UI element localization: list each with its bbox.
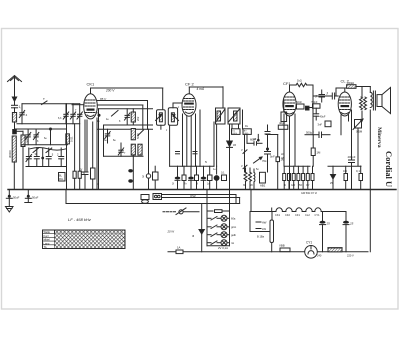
svg-text:Lang: Lang bbox=[44, 241, 50, 245]
svg-text:V: V bbox=[241, 149, 243, 152]
filter label box A bbox=[232, 129, 241, 135]
svg-text:500µF: 500µF bbox=[306, 131, 314, 135]
wire x214 bbox=[213, 122, 215, 166]
svg-text:gelb: gelb bbox=[231, 233, 236, 237]
tube CF2 pin wires bbox=[183, 110, 201, 166]
resistor 1M vertical bbox=[311, 135, 321, 167]
svg-text:J: J bbox=[178, 106, 180, 109]
wire rail x142.8 bbox=[142, 105, 144, 129]
svg-text:7: 7 bbox=[75, 109, 77, 112]
switch S2 bbox=[33, 148, 39, 153]
component row under CF2 bbox=[175, 166, 212, 189]
fuse 1A bbox=[176, 246, 183, 254]
wire section B bottom bbox=[22, 144, 68, 146]
svg-text:20 W: 20 W bbox=[167, 230, 175, 234]
svg-text:3nF: 3nF bbox=[318, 123, 323, 127]
switch contact bbox=[243, 150, 247, 154]
lamp 1 bbox=[207, 215, 236, 221]
svg-text:CY1: CY1 bbox=[306, 241, 312, 245]
wire CF2 anode bbox=[189, 87, 223, 108]
switch S1 bbox=[42, 97, 48, 105]
box 50nF bbox=[312, 100, 326, 120]
oscillator section top row bbox=[96, 109, 153, 190]
svg-text:2: 2 bbox=[57, 153, 59, 157]
resistor box vertical bbox=[281, 100, 287, 122]
svg-text:3K: 3K bbox=[243, 184, 246, 187]
wire x244.5 bbox=[244, 135, 246, 172]
resistor zigzag vertical bbox=[360, 87, 367, 119]
capacitor heater1 bbox=[320, 212, 331, 252]
transformer box bbox=[260, 172, 266, 187]
svg-text:1e: 1e bbox=[213, 168, 216, 171]
resistor row right bbox=[283, 166, 314, 189]
switch circle bbox=[142, 156, 151, 189]
capacitor 60pF bbox=[247, 138, 262, 146]
svg-text:0,5M: 0,5M bbox=[356, 130, 363, 134]
IF transformer 1 can A bbox=[156, 110, 166, 126]
svg-text:GW: GW bbox=[291, 184, 296, 187]
svg-text:PAL: PAL bbox=[59, 178, 64, 181]
wire tube1 pin bbox=[86, 120, 88, 171]
electrolytic 50uF B bbox=[25, 190, 39, 203]
coil L2 bbox=[8, 136, 16, 162]
capacitor 500pF bbox=[305, 131, 330, 138]
svg-text:LP: LP bbox=[281, 153, 284, 156]
wire right rail bbox=[66, 104, 68, 190]
svg-text:5o: 5o bbox=[256, 168, 259, 171]
coil loops bbox=[253, 169, 256, 190]
diode D1 bbox=[227, 124, 233, 190]
capacitor 5nF bbox=[265, 125, 276, 159]
svg-text:1B: 1B bbox=[233, 144, 236, 147]
resistor zigzag bbox=[244, 168, 247, 190]
svg-text:DL: DL bbox=[245, 125, 249, 128]
IF transformer 2 can B bbox=[228, 108, 240, 124]
tube CL2 pins bbox=[341, 110, 352, 135]
trimmer capacitor bbox=[70, 104, 75, 124]
wire osc row2 top bbox=[97, 128, 153, 130]
osc switch bbox=[138, 130, 144, 135]
wire bbox=[21, 104, 23, 112]
lamp 2 bbox=[207, 224, 237, 230]
svg-text:50uF: 50uF bbox=[13, 196, 20, 200]
svg-text:4e: 4e bbox=[106, 118, 109, 121]
grid cap J3 bbox=[313, 92, 338, 104]
svg-text:1M: 1M bbox=[317, 151, 322, 155]
wire anode line 200V bbox=[91, 88, 163, 110]
svg-text:CF1: CF1 bbox=[295, 213, 300, 217]
capacitor bbox=[77, 112, 82, 119]
osc coil L6 bbox=[131, 109, 140, 125]
svg-text:Minerva: Minerva bbox=[376, 127, 382, 148]
coil L1 bbox=[12, 108, 16, 122]
svg-text:V: V bbox=[241, 165, 243, 168]
speaker bbox=[377, 88, 391, 114]
thermistor BAB bbox=[141, 195, 149, 204]
svg-text:1e: 1e bbox=[97, 120, 100, 123]
filter label box B bbox=[243, 129, 251, 135]
svg-text:rot: rot bbox=[231, 241, 234, 245]
filament feed wires bbox=[162, 194, 240, 204]
svg-text:4B: 4B bbox=[253, 138, 256, 141]
wire rail x74.6 bbox=[74, 124, 76, 171]
svg-text:OSZ: OSZ bbox=[190, 194, 196, 198]
capacitor bars on pin bbox=[176, 152, 198, 154]
svg-text:30000: 30000 bbox=[8, 150, 12, 158]
svg-text:3l: 3l bbox=[142, 175, 144, 179]
electrolytic 25uF bbox=[331, 166, 336, 189]
electrolytic can bbox=[214, 166, 220, 189]
wire osc row3 bottom bbox=[104, 155, 144, 157]
box 50nF second bbox=[296, 100, 313, 110]
svg-text:3l: 3l bbox=[172, 183, 174, 186]
speaker transformer bbox=[362, 87, 375, 111]
svg-text:200 V: 200 V bbox=[105, 89, 115, 93]
svg-text:Mittel: Mittel bbox=[44, 238, 51, 242]
wire bbox=[267, 158, 269, 172]
svg-text:50nF: 50nF bbox=[312, 100, 318, 104]
rectifier CY1 bbox=[305, 241, 318, 259]
svg-text:6e: 6e bbox=[44, 137, 47, 140]
svg-text:1kΩ: 1kΩ bbox=[297, 79, 302, 83]
coil L5 bbox=[66, 134, 74, 144]
lamp 4 bbox=[207, 240, 234, 246]
heater chain bbox=[251, 208, 346, 217]
osc coil L8 bbox=[131, 129, 140, 140]
svg-text:LF - 468 kHz: LF - 468 kHz bbox=[68, 217, 91, 222]
resistor box 0,1 bbox=[221, 171, 227, 181]
osc row2 trimmer bbox=[105, 129, 110, 143]
svg-text:1,: 1, bbox=[19, 105, 22, 109]
resistor box bbox=[153, 166, 159, 189]
svg-text:5O: 5O bbox=[299, 184, 302, 187]
band switch box bbox=[250, 208, 274, 252]
svg-text:CF2: CF2 bbox=[285, 213, 290, 217]
svg-text:TA: TA bbox=[44, 245, 47, 249]
svg-text:LW: LW bbox=[262, 227, 266, 231]
volume pot right bbox=[353, 119, 363, 166]
main bus bbox=[8, 189, 396, 191]
svg-text:60a: 60a bbox=[231, 217, 236, 221]
wire CL2 anode bbox=[336, 87, 362, 97]
valve table bbox=[43, 230, 126, 249]
wire tube1 pin2 bbox=[96, 118, 98, 190]
svg-text:7: 7 bbox=[124, 152, 126, 155]
svg-text:VBB: VBB bbox=[279, 244, 285, 248]
wire grid left bbox=[72, 104, 84, 106]
svg-text:CK1: CK1 bbox=[87, 82, 96, 87]
svg-text:6e: 6e bbox=[104, 139, 107, 142]
resistor box 40pF bbox=[278, 121, 288, 129]
wire osc rail2 bbox=[103, 125, 105, 156]
svg-text:400pF: 400pF bbox=[348, 155, 356, 159]
tube CK1 bbox=[84, 82, 98, 119]
wire bbox=[13, 162, 15, 190]
wire bbox=[14, 122, 16, 130]
sub bus bbox=[66, 190, 240, 204]
mains line bbox=[168, 251, 368, 253]
wire mid row bbox=[15, 128, 67, 130]
wire wavy switch row bbox=[30, 148, 66, 151]
wire CF1 anode zigzag 1k bbox=[290, 79, 314, 135]
volume potentiometer bbox=[254, 157, 268, 163]
svg-text:4l: 4l bbox=[284, 184, 286, 187]
svg-text:8: 8 bbox=[119, 120, 121, 123]
wire bbox=[50, 129, 52, 145]
svg-text:grün: grün bbox=[231, 225, 237, 229]
osc trimmer row3 bbox=[118, 143, 123, 156]
resistor mains bbox=[328, 248, 342, 252]
node switch contact bbox=[13, 130, 23, 134]
wire tie bbox=[328, 165, 361, 167]
tiny value labels bbox=[37, 106, 348, 195]
pot small bbox=[148, 129, 150, 156]
svg-text:LRG: LRG bbox=[232, 133, 237, 135]
svg-text:AW: AW bbox=[262, 221, 267, 225]
svg-text:25: 25 bbox=[349, 222, 354, 226]
resistor zigzag2 bbox=[249, 168, 252, 190]
IF transformer 2 can A bbox=[216, 108, 226, 124]
tube CF2 bbox=[182, 82, 196, 117]
wire screen line bbox=[97, 97, 147, 129]
svg-text:220 V: 220 V bbox=[347, 254, 354, 258]
capacitor C-ant bbox=[12, 105, 22, 109]
osc coil L9 bbox=[131, 144, 135, 155]
voltage labels bbox=[317, 254, 354, 258]
component VBB bbox=[279, 244, 290, 252]
wire rail with electrolytic bbox=[167, 204, 205, 252]
svg-text:100: 100 bbox=[343, 170, 348, 173]
trimmer capacitor bbox=[19, 111, 27, 124]
coil L3 bbox=[21, 131, 30, 189]
svg-text:6,3: 6,3 bbox=[58, 117, 62, 120]
svg-text:5nF: 5nF bbox=[270, 155, 275, 159]
tube CF1 pins bbox=[284, 114, 295, 190]
svg-text:8e: 8e bbox=[113, 139, 116, 142]
wire section C bottom bbox=[26, 166, 67, 168]
connector box bbox=[153, 194, 162, 200]
svg-text:OY: OY bbox=[306, 184, 310, 187]
wire line3 bbox=[97, 104, 143, 106]
resistor box bbox=[91, 122, 96, 190]
tiny labels under row bbox=[172, 183, 210, 186]
svg-text:Cordial U: Cordial U bbox=[384, 151, 394, 187]
svg-text:3l: 3l bbox=[192, 234, 195, 238]
svg-text:0,1: 0,1 bbox=[356, 169, 360, 173]
svg-text:2K: 2K bbox=[250, 184, 253, 187]
wire tie line bbox=[170, 165, 214, 167]
svg-text:1011: 1011 bbox=[70, 136, 74, 142]
svg-text:25: 25 bbox=[326, 222, 331, 226]
tube CL2 bbox=[338, 79, 356, 117]
lamp 3 bbox=[207, 232, 236, 238]
grid cap J2 bbox=[315, 90, 325, 102]
resistor box LP bbox=[276, 135, 285, 190]
svg-text:5: 5 bbox=[52, 153, 54, 157]
switch contact bbox=[243, 165, 247, 169]
trimmer capacitor B2 bbox=[33, 129, 38, 145]
box 3nF bbox=[318, 121, 332, 127]
wire antenna lead bbox=[14, 100, 16, 105]
svg-text:50uF: 50uF bbox=[32, 196, 39, 200]
svg-text:7e: 7e bbox=[184, 183, 187, 186]
resistor box bbox=[344, 166, 348, 189]
svg-text:3/: 3/ bbox=[80, 168, 82, 172]
ground bbox=[6, 207, 14, 213]
capacitor under tube1 bbox=[82, 120, 88, 190]
svg-text:50nF: 50nF bbox=[296, 100, 302, 104]
padder capacitor bank bbox=[26, 148, 64, 167]
svg-text:4: 4 bbox=[26, 113, 28, 117]
wire top row RF bbox=[22, 103, 80, 105]
svg-text:4 mA: 4 mA bbox=[197, 87, 204, 91]
svg-text:70k: 70k bbox=[262, 159, 267, 163]
osc coil L10 bbox=[138, 144, 142, 155]
svg-text:2V 0,1A: 2V 0,1A bbox=[218, 246, 228, 250]
wire osc row1 bottom bbox=[104, 124, 153, 126]
wire right rail bbox=[369, 110, 371, 252]
wire can1 legs bbox=[161, 103, 182, 166]
svg-text:CK1: CK1 bbox=[275, 213, 281, 217]
capacitor heater2 bbox=[343, 212, 354, 252]
wire rail x130.5 bbox=[132, 155, 134, 190]
svg-text:202: 202 bbox=[136, 116, 140, 121]
svg-text:J: J bbox=[326, 92, 328, 96]
electrolytic 50uF A bbox=[6, 190, 19, 207]
box BL PAL bbox=[59, 173, 66, 182]
trimmer capacitor bbox=[63, 104, 68, 124]
dial lamp block bbox=[207, 190, 230, 246]
node junction bbox=[49, 128, 52, 131]
svg-text:J: J bbox=[166, 129, 168, 132]
svg-text:B 1Ba: B 1Ba bbox=[257, 235, 265, 239]
wire can legs bbox=[217, 110, 259, 166]
node bbox=[257, 139, 260, 142]
svg-text:1A: 1A bbox=[177, 246, 181, 250]
switch S3 bbox=[46, 148, 52, 153]
antenna bbox=[8, 76, 22, 102]
svg-text:0,1: 0,1 bbox=[221, 171, 225, 175]
trimmer capacitor B1 bbox=[25, 129, 30, 145]
svg-text:LRG: LRG bbox=[244, 133, 249, 135]
svg-text:100kΩ: 100kΩ bbox=[347, 81, 355, 85]
svg-text:Kurz: Kurz bbox=[44, 234, 50, 238]
wire rail x79.7 bbox=[79, 104, 81, 171]
contact blobs bbox=[128, 169, 133, 183]
svg-text:AB: AB bbox=[281, 157, 285, 160]
wire bbox=[266, 134, 278, 136]
svg-text:85 V: 85 V bbox=[100, 97, 107, 101]
svg-text:5l: 5l bbox=[196, 183, 198, 186]
svg-text:CY1: CY1 bbox=[315, 213, 321, 217]
svg-text:T: T bbox=[43, 97, 45, 101]
resistor box pair bbox=[73, 168, 82, 190]
IF transformer 1 can B bbox=[168, 108, 178, 125]
svg-text:5l: 5l bbox=[205, 161, 207, 164]
svg-text:40uF: 40uF bbox=[320, 115, 326, 119]
heater feed bbox=[250, 190, 252, 212]
capacitor 400pF bbox=[348, 134, 356, 190]
svg-text:8: 8 bbox=[37, 140, 39, 143]
svg-text:CF 2: CF 2 bbox=[185, 82, 194, 87]
tube CF1 bbox=[283, 81, 296, 116]
mains switch bbox=[163, 208, 199, 215]
svg-text:240: 240 bbox=[317, 254, 322, 258]
resistor box 0,1 bbox=[356, 166, 363, 190]
node bbox=[266, 148, 269, 151]
svg-text:Welle: Welle bbox=[44, 230, 51, 234]
wire section A bottom bbox=[17, 123, 80, 125]
svg-text:GW 50Ω OY 2l: GW 50Ω OY 2l bbox=[301, 192, 317, 195]
svg-text:AB1: AB1 bbox=[260, 184, 266, 188]
svg-text:CL2: CL2 bbox=[305, 213, 310, 217]
